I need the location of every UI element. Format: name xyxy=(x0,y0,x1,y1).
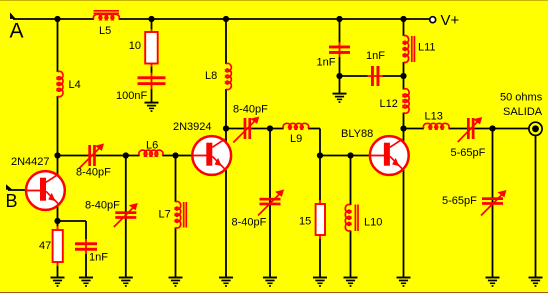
wire rail to L8 xyxy=(225,19,227,64)
resistor R 15 xyxy=(316,204,325,235)
svg-text:100nF: 100nF xyxy=(116,90,147,102)
inductor L4 xyxy=(58,71,63,96)
ground (R15) xyxy=(313,278,327,287)
node junction Q3 collector xyxy=(400,125,406,131)
wire V+ rail right segment xyxy=(119,18,430,20)
wire L11 to L12 xyxy=(403,62,405,90)
trimmer capacitor 5-65pF T5 (series, output) xyxy=(458,117,483,142)
node junction T6 branch xyxy=(489,125,495,131)
input arrow B xyxy=(6,184,13,190)
ground (Q3 emitter) xyxy=(397,278,411,287)
svg-text:A: A xyxy=(10,20,24,43)
inductor L8 xyxy=(226,63,231,89)
wire L10 to ground xyxy=(350,231,352,278)
svg-text:V+: V+ xyxy=(441,12,460,29)
wire input B to base Q1 xyxy=(8,189,26,191)
node junction rail-L11 xyxy=(400,16,406,22)
svg-text:L9: L9 xyxy=(290,133,302,145)
resistor R 47 xyxy=(53,230,63,262)
resistor R 47 lead stubs xyxy=(57,226,59,231)
capacitor 1nF (coupling horizontal) xyxy=(368,66,383,86)
wire L9 to corner xyxy=(308,128,320,130)
svg-text:8-40pF: 8-40pF xyxy=(233,103,268,115)
transistor Q2 2N3924 xyxy=(192,136,231,175)
wire V+ rail left segment xyxy=(13,18,94,20)
svg-text:L5: L5 xyxy=(99,25,111,37)
svg-text:B: B xyxy=(6,191,18,211)
ground (trimmer T2) xyxy=(119,278,133,287)
ground (L7) xyxy=(169,278,183,287)
inductor L5 (series in rail, with core) xyxy=(93,11,119,19)
terminal V+ xyxy=(430,17,436,23)
inductor L13 (series, output) xyxy=(423,123,449,128)
svg-text:L12: L12 xyxy=(380,98,398,110)
svg-text:5-65pF: 5-65pF xyxy=(451,147,486,159)
capacitor 100nF xyxy=(138,73,166,89)
wire Q3 emitter to ground xyxy=(403,170,405,278)
svg-text:8-40pF: 8-40pF xyxy=(76,167,111,179)
svg-text:L11: L11 xyxy=(418,42,436,54)
ground (trimmer T4) xyxy=(263,278,277,287)
svg-text:10: 10 xyxy=(129,40,141,52)
wire R15 to ground xyxy=(319,239,321,278)
resistor R 15 lead stubs xyxy=(319,200,321,205)
wire trimmer T2 branch to ground xyxy=(125,156,127,278)
ground (100nF) xyxy=(145,103,159,112)
node junction rail-L4 xyxy=(54,16,60,22)
capacitor 1nF (V+ decoupling vertical) xyxy=(329,42,350,57)
svg-text:5-65pF: 5-65pF xyxy=(442,195,477,207)
wire L8 to Q2 collector xyxy=(225,89,227,142)
ground (Q2 emitter) xyxy=(219,278,233,287)
node junction rail-L8 xyxy=(223,16,229,22)
inductor L9 (series, stage2) xyxy=(283,123,309,128)
capacitor 1nF (Q1 emitter) xyxy=(75,239,97,254)
ground (emitter 1nF cap) xyxy=(79,278,93,287)
node junction Q1 emitter xyxy=(54,218,60,224)
wire shunt trimmer T6 to ground xyxy=(492,129,494,278)
resistor R 10 lead stubs xyxy=(151,29,153,33)
inductor L6 (series in base line) xyxy=(139,150,163,155)
wire Q1 emitter to node xyxy=(57,206,59,227)
node junction L7 branch xyxy=(172,152,178,158)
wire connector to ground xyxy=(535,136,537,278)
node junction Q2 collector xyxy=(223,125,229,131)
svg-text:L7: L7 xyxy=(159,209,171,221)
node junction Q1 collector xyxy=(54,152,60,158)
inductor L11 (with core) xyxy=(404,36,415,63)
wire L10 branch upper xyxy=(350,156,352,206)
svg-text:1nF: 1nF xyxy=(366,50,385,62)
wire L13 to output connector xyxy=(449,128,529,130)
svg-text:L8: L8 xyxy=(205,70,217,82)
inductor L12 xyxy=(404,89,410,114)
trimmer capacitor 5-65pF T6 (shunt, output) xyxy=(481,190,507,216)
trimmer capacitor 8-40pF T2 (shunt, stage1) xyxy=(114,203,138,227)
wire L7 branch upper xyxy=(175,156,177,203)
node junction L10 branch xyxy=(347,152,353,158)
svg-text:L13: L13 xyxy=(425,111,443,123)
resistor R 10 xyxy=(145,32,158,64)
ground (L10) xyxy=(344,278,358,287)
wire L4 branch upper xyxy=(57,19,59,72)
bottom border line xyxy=(0,292,548,293)
wire trimmer T4 branch to ground xyxy=(269,129,271,278)
node junction R15 branch xyxy=(317,152,323,158)
svg-text:BLY88: BLY88 xyxy=(341,128,373,140)
wire rail to R10 xyxy=(151,19,153,30)
transistor Q1 2N4427 xyxy=(26,171,65,210)
svg-text:15: 15 xyxy=(299,215,311,227)
wire L6 to Q2 base xyxy=(162,155,192,157)
svg-text:8-40pF: 8-40pF xyxy=(232,217,267,229)
node junction rail-C1nF xyxy=(336,16,342,22)
svg-text:50 ohms: 50 ohms xyxy=(500,91,543,103)
wire C 1nF upper xyxy=(85,221,87,239)
inductor L7 (with core) xyxy=(176,201,187,228)
wire decoupling node to L11 node xyxy=(340,75,368,77)
svg-text:L4: L4 xyxy=(69,79,81,91)
svg-text:1nF: 1nF xyxy=(317,57,336,69)
node junction T2 branch xyxy=(123,152,129,158)
trimmer capacitor 8-40pF T4 (shunt, stage2) xyxy=(258,190,284,216)
svg-text:L10: L10 xyxy=(364,216,382,228)
svg-text:L6: L6 xyxy=(146,140,158,152)
wire C1nF to ground node xyxy=(339,57,341,94)
inductor L10 (with core) xyxy=(345,204,358,231)
wire rail to C1nF top xyxy=(339,19,341,42)
node junction L11-L12 xyxy=(400,73,406,79)
wire C 1nF lower to ground xyxy=(85,254,87,278)
wire rail to L11 xyxy=(403,19,405,36)
wire L4 branch lower xyxy=(57,96,59,175)
svg-text:1nF: 1nF xyxy=(89,252,108,264)
wire L7 to ground xyxy=(175,228,177,278)
svg-text:SALIDA: SALIDA xyxy=(503,106,543,118)
wire corner down to Q3 base node xyxy=(319,129,321,201)
wire L12 to Q3 collector xyxy=(403,113,405,142)
wire C100nF to ground xyxy=(151,89,153,103)
wire stage2 line to L9 xyxy=(226,128,284,130)
output connector (50 ohm SALIDA) xyxy=(529,122,542,135)
ground (trimmer T6) xyxy=(486,278,500,287)
wire Q3 base line xyxy=(320,155,370,157)
wire Q1 collector line to L6 xyxy=(58,155,140,157)
input arrow A xyxy=(10,12,16,19)
svg-text:2N4427: 2N4427 xyxy=(11,156,50,168)
ground (Q1 emitter R47) xyxy=(51,278,65,287)
wire Q2 emitter to ground xyxy=(225,170,227,278)
svg-text:2N3924: 2N3924 xyxy=(173,121,212,133)
node junction decoupling ground xyxy=(336,73,342,79)
node junction T4 branch xyxy=(267,125,273,131)
node junction rail-R10 xyxy=(148,16,154,22)
ground (output connector) xyxy=(529,278,543,287)
wire output line to L13 xyxy=(404,128,425,130)
wire R47 to ground xyxy=(57,266,59,278)
ground (decoupling 1nF) xyxy=(333,94,347,103)
wire emitter tee to C 1nF xyxy=(58,220,87,222)
svg-text:8-40pF: 8-40pF xyxy=(85,200,120,212)
top border line xyxy=(0,0,548,2)
transistor Q3 BLY88 xyxy=(370,136,409,175)
wire R10 to C100nF xyxy=(151,67,153,74)
trimmer capacitor 8-40pF T1 (series, stage1) xyxy=(79,144,104,169)
svg-text:47: 47 xyxy=(39,240,51,252)
trimmer capacitor 8-40pF T3 (series, stage2) xyxy=(233,117,259,143)
